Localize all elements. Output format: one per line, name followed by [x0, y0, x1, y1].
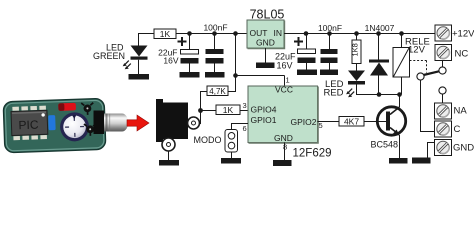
svg-text:MODO: MODO [194, 135, 222, 145]
node junction 1K8 [354, 31, 359, 36]
svg-text:GPIO1: GPIO1 [251, 115, 277, 125]
PIC remote board [3, 98, 106, 152]
svg-text:1: 1 [286, 76, 290, 85]
label LED GREEN [93, 43, 125, 62]
svg-text:12V: 12V [408, 45, 426, 56]
ground MODO button [221, 158, 241, 164]
resistor 1K input [216, 105, 240, 115]
wire +5V rail 1K to 78L05 OUT [176, 33, 247, 35]
transistor Q1 BC548 [377, 107, 405, 136]
wire node to 1K [201, 110, 217, 112]
svg-text:NA: NA [454, 106, 468, 117]
ground 78L05 [256, 63, 275, 69]
terminal NC [435, 45, 452, 61]
LED green diode [123, 34, 148, 75]
wire jack tip to ground [168, 151, 170, 160]
terminal +12V [435, 25, 452, 41]
svg-text:4,7K: 4,7K [209, 87, 226, 96]
capacitor 22uF 16V left (electrolytic) [181, 34, 199, 73]
blue capacitor on board [48, 115, 56, 130]
capacitor 100nF left [206, 34, 224, 73]
label 22uF 16V right [275, 52, 296, 71]
ground 12F629 [273, 160, 292, 166]
node junction 22uF right [304, 31, 309, 36]
svg-text:RED: RED [323, 88, 343, 99]
capacitor 22uF 16V right (electrolytic) [298, 34, 316, 70]
relay mechanical link (dashed) [410, 61, 427, 73]
resistor 1K (LED green series) [154, 29, 176, 39]
svg-text:100nF: 100nF [203, 23, 227, 33]
svg-text:GREEN: GREEN [93, 51, 125, 61]
diode 1N4007 [369, 34, 389, 95]
wire emitter down [399, 135, 401, 158]
ground 22uF right [297, 70, 317, 76]
label + of 22uF right [294, 37, 303, 46]
LED red diode [346, 71, 365, 98]
node junction jack/1K/4K7 [198, 108, 203, 113]
small parts on board [81, 103, 96, 136]
label 22uF 16V left [158, 48, 179, 66]
svg-text:PIC: PIC [18, 118, 39, 133]
jack socket J1 [156, 99, 200, 151]
terminal GND [435, 140, 452, 156]
svg-text:GND: GND [453, 143, 474, 154]
resistor 1K8 [351, 34, 361, 71]
node junction 1N4007 [376, 31, 381, 36]
svg-text:16V: 16V [163, 56, 178, 66]
ground LED green [129, 74, 150, 80]
relay coil [393, 34, 410, 95]
wire 1K to GPIO4 [240, 110, 248, 112]
svg-text:VCC: VCC [275, 85, 293, 95]
jack plug barrel [94, 111, 129, 135]
svg-text:6: 6 [243, 124, 247, 133]
node junction VCC/4K7 [233, 73, 238, 78]
wire GND terminal to ground [428, 143, 435, 158]
svg-text:1K: 1K [223, 105, 234, 115]
wire VCC branch down and to pin 1 [236, 34, 285, 87]
svg-text:NC: NC [455, 49, 469, 60]
wire GPIO1 to button [232, 124, 249, 130]
svg-text:GPIO4: GPIO4 [251, 105, 277, 115]
ground terminal GND [412, 158, 431, 164]
IC 12F629 [248, 85, 318, 144]
svg-text:C: C [454, 124, 461, 135]
node junction 22uF left [187, 31, 192, 36]
ground emitter [389, 158, 408, 164]
node junction diode/collector [377, 92, 382, 97]
wire GND pin to ground [284, 143, 286, 161]
wire 78L05 GND to ground [265, 48, 267, 63]
red LED on board [58, 103, 76, 111]
chip PIC [11, 110, 48, 135]
node junction VCC branch [233, 31, 238, 36]
terminal NA [435, 103, 452, 119]
svg-text:5: 5 [319, 121, 323, 130]
node junction relay/collector [397, 92, 402, 97]
wire 4K7 to base [364, 121, 386, 123]
relay switch contacts [417, 61, 446, 132]
wire collector node [357, 94, 402, 96]
wire +12V rail 78L05 IN to terminal [284, 33, 435, 35]
svg-text:100nF: 100nF [318, 23, 342, 33]
svg-text:3: 3 [243, 101, 247, 110]
terminal C [435, 121, 452, 137]
svg-text:GND: GND [256, 38, 275, 48]
pushbutton MODO [225, 130, 238, 153]
resistor 4,7K pull-up [201, 77, 236, 111]
svg-text:4K7: 4K7 [344, 116, 359, 126]
insertion arrow [127, 115, 149, 131]
svg-text:GPIO2: GPIO2 [291, 117, 317, 127]
wire button to ground [231, 152, 233, 158]
svg-text:78L05: 78L05 [250, 8, 285, 22]
svg-text:1N4007: 1N4007 [365, 23, 395, 33]
svg-text:8: 8 [283, 143, 287, 152]
ground 22uF left [180, 72, 200, 78]
resistor 4K7 base [339, 116, 364, 126]
svg-text:+12V: +12V [452, 29, 474, 40]
svg-text:1K: 1K [160, 29, 171, 39]
svg-text:12F629: 12F629 [293, 148, 332, 160]
wire collector up [399, 95, 401, 108]
label + of 22uF left [178, 37, 187, 46]
label LED RED [323, 79, 343, 99]
node junction 100nF right [327, 31, 332, 36]
ground 100nF right [320, 70, 338, 76]
wire +5V rail from LED branch to 1K [138, 33, 154, 35]
svg-text:OUT: OUT [250, 28, 268, 38]
regulator 78L05 [247, 20, 285, 49]
svg-text:GND: GND [274, 133, 293, 143]
wire jack sleeve to node [200, 111, 202, 125]
capacitor 100nF right [321, 34, 338, 70]
svg-text:IN: IN [274, 28, 283, 38]
node junction relay [399, 31, 404, 36]
wire GPIO2 to 4K7 [318, 121, 340, 123]
svg-text:16V: 16V [276, 61, 292, 71]
label RELE 12V [405, 37, 430, 56]
battery on board [60, 112, 90, 142]
ground 100nF left [205, 72, 225, 78]
ground jack [159, 160, 179, 166]
svg-text:1K8: 1K8 [351, 43, 360, 56]
svg-text:BC548: BC548 [371, 140, 399, 150]
node junction 100nF left [212, 31, 217, 36]
